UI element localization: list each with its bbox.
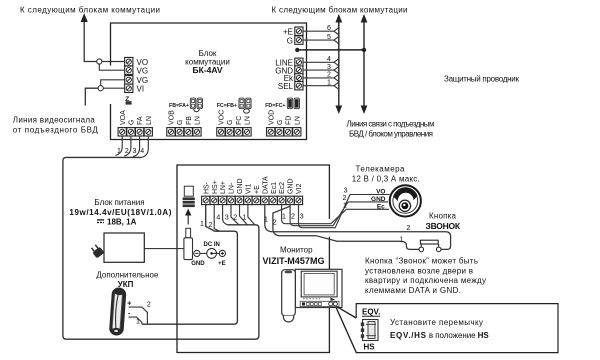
svg-text:Кнопка: Кнопка [429,212,457,221]
svg-text:2: 2 [291,214,295,221]
svg-text:Монитор: Монитор [280,245,313,254]
svg-text:18В, 1А: 18В, 1А [107,218,137,227]
arrow: plug into jack [187,215,189,225]
svg-text:3: 3 [300,214,304,221]
wire: monitor VI1 branch (1) [248,205,255,225]
wire 2: Ek to riser [303,72,339,82]
DC IN legend [191,242,225,267]
svg-text:VI1: VI1 [246,183,253,194]
wire: GND to camera (2) [290,202,348,226]
jumper icon in EQV box [361,320,378,341]
wire: HS+ merge branch [214,205,219,231]
svg-text:Защитный проводник: Защитный проводник [444,75,520,84]
svg-text:Ec1: Ec1 [271,182,278,194]
wire: VI2 to camera (3) [299,195,351,228]
svg-text:3: 3 [225,215,229,222]
svg-text:1: 1 [200,221,204,228]
svg-text:LN: LN [245,116,252,125]
svg-text:2: 2 [327,72,331,79]
svg-text:6: 6 [327,25,331,32]
DC plug drawing [184,228,193,259]
svg-text:G: G [129,120,136,125]
svg-text:БВД / блоком управления: БВД / блоком управления [349,129,433,138]
svg-text:EQV./HS в положение HS: EQV./HS в положение HS [390,331,489,340]
svg-text:квартиру и подключена между: квартиру и подключена между [365,276,486,285]
svg-text:+E: +E [254,185,261,194]
svg-text:LN+: LN+ [220,181,227,194]
svg-text:1: 1 [264,217,268,224]
wire 4: LINE to riser [303,56,339,66]
wire: left riser bus to next commutation blocks (up arrow) [84,21,96,62]
wire: VOA strip wire 3 curl [133,136,140,156]
svg-text:К следующим блокам коммутации: К следующим блокам коммутации [272,6,408,15]
svg-text:12 В / 0,3 А макс.: 12 В / 0,3 А макс. [352,174,420,183]
svg-text:Кнопка “Звонок” может быть: Кнопка “Звонок” может быть [365,257,478,266]
svg-text:2: 2 [147,301,151,308]
wire: riser line 2 (protective conductor, double arrow) [361,14,368,114]
svg-text:FC=FB+: FC=FB+ [217,103,237,109]
svg-text:VIZIT-M457MG: VIZIT-M457MG [263,256,325,266]
mains plug icon [90,243,105,258]
svg-text:1: 1 [400,237,404,244]
camera icon [390,185,421,216]
svg-text:VOD: VOD [268,110,275,125]
wire 6: +E to riser [303,25,339,35]
svg-text:HS: HS [364,342,376,351]
svg-text:GND: GND [288,178,295,194]
DC symbol + 18В 1А [97,219,104,221]
svg-text:Установите перемычку: Установите перемычку [390,318,483,327]
svg-text:FD=FC+: FD=FC+ [265,103,285,109]
svg-text:1: 1 [136,319,140,326]
svg-text:HS+: HS+ [212,180,219,194]
svg-text:4: 4 [216,215,220,222]
svg-text:1: 1 [343,203,347,210]
wire: tap branch to VG2 terminal [101,80,125,86]
wire: Ec2 to camera (1) [282,205,347,224]
wire: VOA strip wire 4 curl [142,136,149,157]
svg-text:VO: VO [376,188,385,195]
wire: video bundle loop to monitor (left big loop) [63,157,259,339]
wire 1: SEL to riser [303,80,339,90]
svg-text:LN: LN [195,116,202,125]
svg-text:2: 2 [342,195,346,202]
svg-text:от подъездного БВД: от подъездного БВД [13,126,99,135]
terminal VG [125,66,133,74]
terminal VO [125,57,133,65]
monitor device drawing [282,269,342,322]
node: G junction dot [295,48,299,52]
node: junction on protective conductor [362,48,366,52]
terminal VI [125,84,133,92]
УКП handset icon [109,287,127,336]
wire: VOA strip wire 1 curl [116,136,123,155]
svg-text:3: 3 [133,148,137,155]
block monitor outline [177,165,329,353]
button contacts [419,247,424,252]
svg-text:Ec2: Ec2 [279,182,286,194]
button cap [420,240,438,244]
terminal Ek [295,74,303,82]
wire 3: GND to riser [303,64,339,74]
svg-text:Блок питания: Блок питания [94,198,144,207]
svg-text:БК-4AV: БК-4AV [192,65,222,75]
svg-text:Дополнительное: Дополнительное [96,270,159,279]
svg-text:VI2: VI2 [296,183,303,194]
wire: video line from entrance БВД (lower-left bus) [85,88,98,105]
strip C terminals VOC G FC LN [217,110,252,136]
svg-text:5: 5 [327,34,331,41]
svg-text:FC: FC [236,116,243,125]
svg-text:GND: GND [237,178,244,194]
wire: monitor LN- branch (3) [231,205,239,225]
wire: riser line 1 (communication line, double arrow) [335,14,342,114]
svg-text:HS-: HS- [203,181,210,194]
svg-text:FD: FD [286,116,293,125]
wire: monitor LN+ branch (4) [223,205,228,225]
svg-text:2: 2 [209,222,213,229]
svg-text:2: 2 [233,215,237,222]
block БК-4AV outline [111,23,307,140]
wire: HS- to УКП (big loop) [142,205,237,324]
wire: УКП minus lead [129,317,142,324]
svg-text:SEL: SEL [278,82,294,91]
wire 5: G to riser [303,34,339,44]
svg-text:установлена возле двери в: установлена возле двери в [365,266,473,275]
svg-text:DC IN: DC IN [204,242,220,248]
wire: tap branch to VG terminal [99,64,124,70]
svg-text:+: + [127,301,131,308]
svg-text:клеммами DATA и GND.: клеммами DATA и GND. [365,286,461,295]
wire: tap to VO terminal [102,61,125,63]
svg-text:1: 1 [282,214,286,221]
svg-text:Ec: Ec [377,203,385,210]
svg-text:G: G [287,36,293,45]
monitor terminal strip (12) [202,176,304,205]
terminal GND [295,66,303,74]
svg-text:FB=FA+: FB=FA+ [169,103,189,109]
DC jack drawing inside monitor [183,186,195,207]
terminal +E [295,27,303,35]
svg-text:VOC: VOC [219,110,226,125]
svg-text:ЗВОНОК: ЗВОНОК [426,221,461,231]
svg-text:+E: +E [218,261,226,267]
svg-text:Линия связи с подъездным: Линия связи с подъездным [347,120,435,129]
terminal SEL [295,82,303,90]
power adapter box [104,233,144,262]
svg-text:GND: GND [371,196,386,203]
svg-text:LN: LN [146,116,153,125]
svg-text:К следующим блокам коммутации: К следующим блокам коммутации [20,6,160,15]
svg-text:VI: VI [137,85,145,94]
node: video pair tap VO [97,59,102,64]
svg-text:FB: FB [186,116,193,125]
svg-text:FA: FA [137,116,144,125]
wire: GND to door button (2) [273,205,419,250]
svg-text:DATA: DATA [262,176,269,194]
wire: monitor GND branch (2) [240,205,248,225]
wire: DATA to door button (1) [265,205,451,250]
svg-text:G: G [177,120,184,125]
svg-text:VOB: VOB [169,110,176,125]
node: video pair tap VI [98,86,103,91]
terminal LINE [295,58,303,66]
svg-text:LN: LN [294,116,301,125]
svg-text:+E: +E [283,27,293,36]
svg-text:19w/14.4v/EU(18V/1.0A): 19w/14.4v/EU(18V/1.0A) [69,208,171,217]
EQV/HS note box [356,304,558,353]
svg-text:VOA: VOA [120,110,127,125]
svg-text:Телекамера: Телекамера [356,165,406,174]
wire: G to protective conductor [297,49,364,51]
svg-text:EQV.: EQV. [362,307,380,316]
svg-text:4: 4 [140,148,144,155]
wire: VOA strip wire 2 curl [124,136,131,156]
strip B terminals VOB G FB LN [167,110,202,136]
terminal VG2 [125,76,133,84]
strip D terminals VOD G FD LN [267,110,302,136]
svg-text:1: 1 [327,80,331,87]
svg-text:3: 3 [327,64,331,71]
wire: tap to VI terminal [103,87,124,89]
svg-text:LN-: LN- [229,182,236,194]
svg-text:3: 3 [344,187,348,194]
svg-text:2: 2 [273,220,277,227]
svg-text:VG: VG [137,66,149,75]
wire: power adapter to plug [144,248,184,250]
terminal G (top right) [295,36,303,44]
svg-text:G: G [227,120,234,125]
strip A terminals VOA G FA LN [118,110,153,136]
svg-text:Линия видеосигнала: Линия видеосигнала [13,116,96,125]
svg-text:GND: GND [191,261,205,267]
svg-text:1: 1 [243,215,247,222]
svg-text:2: 2 [406,225,410,232]
wire: УКП plus lead [129,307,148,324]
callout wedge to EQV box [337,307,356,318]
svg-text:УКП: УКП [118,280,134,289]
camera wire rows [346,208,389,210]
svg-text:G: G [277,120,284,125]
svg-text:4: 4 [327,56,331,63]
